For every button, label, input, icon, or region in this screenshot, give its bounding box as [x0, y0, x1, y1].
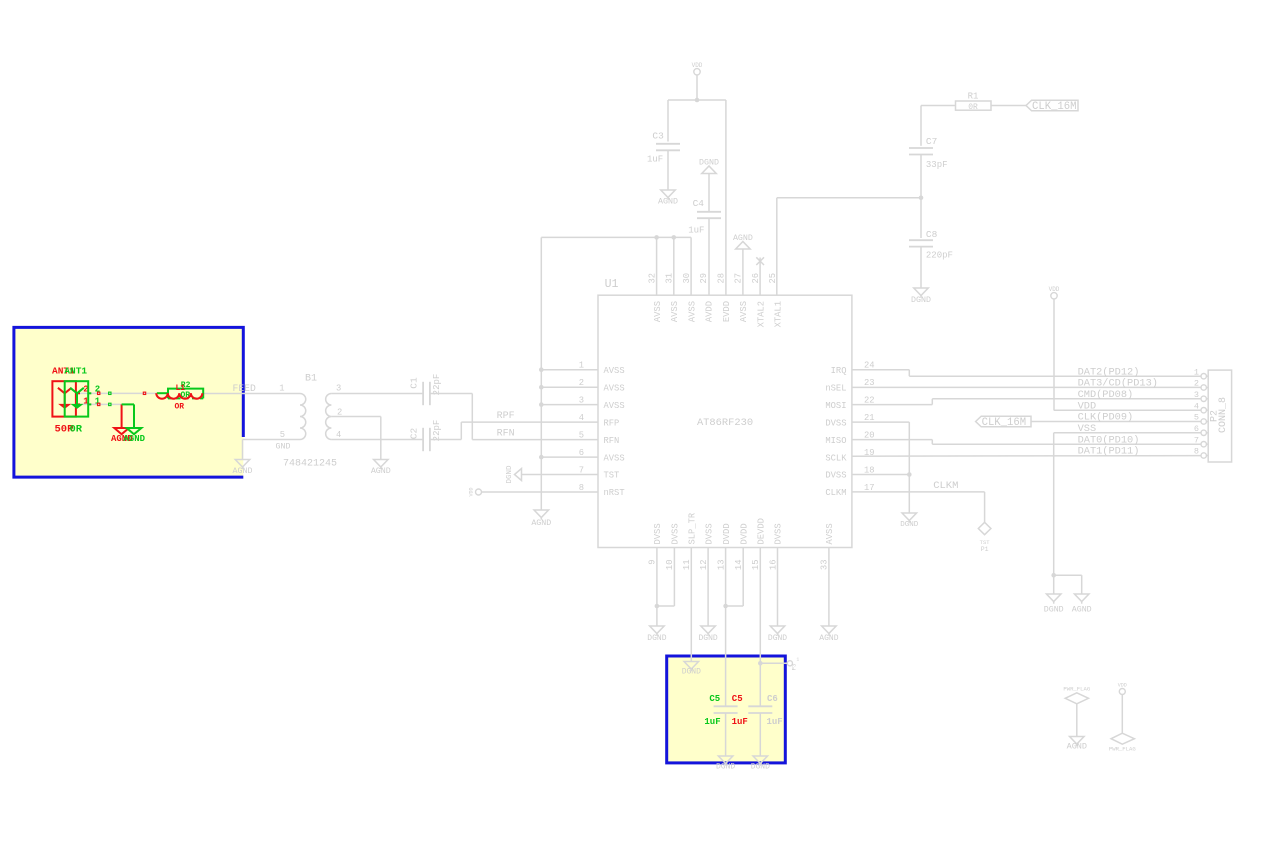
svg-text:1: 1: [279, 384, 284, 394]
wire XTAL1 riser: [777, 198, 921, 295]
op-amp U1 AT86RF230 body: [598, 278, 852, 548]
svg-text:C8: C8: [926, 229, 938, 240]
svg-text:1uF: 1uF: [704, 717, 720, 727]
connector pin P3: [787, 657, 799, 671]
svg-text:DGND: DGND: [911, 296, 931, 305]
wire C1 to RFN: [430, 394, 598, 440]
svg-text:AT86RF230: AT86RF230: [697, 417, 753, 429]
svg-text:C1: C1: [409, 377, 420, 389]
svg-text:nSEL: nSEL: [825, 383, 846, 393]
capacitor C4: [688, 198, 721, 236]
svg-text:2: 2: [1194, 379, 1199, 389]
junction pin 18 DGND node: [907, 472, 912, 477]
ground DGND under C8: [911, 288, 931, 305]
svg-text:PWR_FLAG: PWR_FLAG: [1109, 746, 1136, 753]
svg-text:SCLK: SCLK: [825, 453, 847, 463]
wire pin 30 stub: [690, 237, 692, 295]
transformer B1 748421245: [276, 374, 343, 470]
wire antenna pin 1 (gray): [78, 403, 122, 405]
power symbol VDD (top): [692, 62, 703, 100]
svg-text:XTAL1: XTAL1: [774, 301, 784, 327]
svg-text:5: 5: [280, 430, 285, 440]
ground DGND under pin 12: [698, 626, 717, 643]
ground AGND old (red): [111, 404, 133, 444]
svg-text:CMD(PD08): CMD(PD08): [1078, 389, 1134, 401]
svg-text:DGND: DGND: [647, 634, 666, 643]
wire C3 to AGND: [667, 150, 669, 190]
svg-text:DEVDD: DEVDD: [757, 518, 767, 544]
U1 right pin names and numbers 24-17: [825, 361, 874, 499]
wire DVSS pin 21 to DGND: [852, 422, 909, 513]
svg-text:CLK(PD09): CLK(PD09): [1078, 412, 1134, 424]
svg-text:AVSS: AVSS: [604, 401, 625, 411]
ground DGND under pin 16: [768, 626, 787, 643]
ground AGND of VSS net: [1054, 575, 1092, 614]
svg-text:RFN: RFN: [604, 436, 620, 446]
svg-text:PWR_FLAG: PWR_FLAG: [1063, 686, 1090, 693]
svg-text:B1: B1: [305, 374, 317, 385]
power symbol VDD (right): [1049, 286, 1060, 410]
wire pin 32 stub: [656, 237, 658, 295]
connector P2 CONN_8: [1194, 367, 1232, 462]
svg-text:C2: C2: [409, 428, 420, 440]
svg-text:DVSS: DVSS: [774, 523, 784, 544]
svg-text:RFN: RFN: [497, 429, 515, 440]
wire B1 pin 3 to C1: [331, 393, 423, 395]
U1 left pin names and numbers 1-8: [579, 361, 625, 499]
global label CLK_16M (right): [976, 416, 1201, 429]
wire end markers (red): [98, 392, 146, 406]
wire pin 15 branch to P3 pin: [760, 662, 787, 664]
svg-text:AVDD: AVDD: [705, 301, 715, 322]
wire B1 pin 5 to AGND: [243, 440, 301, 460]
wire pin 13 through C5: [725, 548, 727, 757]
svg-text:1: 1: [797, 657, 800, 663]
svg-text:TST: TST: [980, 539, 991, 546]
svg-text:XTAL2: XTAL2: [756, 301, 766, 327]
svg-text:1uF: 1uF: [647, 155, 663, 165]
svg-text:SLP_TR: SLP_TR: [688, 512, 698, 544]
svg-text:AVSS: AVSS: [604, 453, 625, 463]
svg-text:L1: L1: [176, 384, 186, 393]
junction pins 9-10: [655, 604, 660, 609]
ground AGND under C3: [658, 190, 678, 207]
no-connect X on pin 26: [756, 257, 764, 295]
svg-text:22pF: 22pF: [432, 420, 442, 442]
junction pin 15 branch: [758, 661, 763, 666]
svg-text:OR: OR: [175, 402, 185, 411]
wire MISO pin 20 to DAT0: [852, 440, 1201, 445]
svg-text:CLK_16M: CLK_16M: [982, 417, 1027, 429]
svg-text:DGND: DGND: [751, 763, 770, 772]
svg-text:4: 4: [1194, 401, 1199, 411]
svg-text:DAT2(PD12): DAT2(PD12): [1078, 366, 1140, 378]
wire VDD to connector pin 4: [1054, 409, 1201, 411]
svg-text:DGND: DGND: [716, 763, 735, 772]
svg-text:3: 3: [336, 384, 341, 394]
power pin VDD at nRST pin 8: [469, 487, 599, 496]
ground AGND under AVSS bus: [531, 510, 551, 528]
svg-text:AVSS: AVSS: [825, 523, 835, 544]
svg-text:EVDD: EVDD: [722, 301, 732, 322]
ground DGND at TST pin 7: [506, 465, 598, 484]
svg-text:22pF: 22pF: [432, 374, 442, 396]
svg-text:8: 8: [1194, 447, 1199, 457]
ground AGND under pin 33: [819, 626, 838, 643]
junction VSS ground split: [1051, 573, 1056, 578]
svg-text:DVSS: DVSS: [825, 471, 846, 481]
svg-text:AGND: AGND: [658, 198, 678, 207]
svg-text:220pF: 220pF: [926, 251, 953, 261]
junction C7/C8 node: [919, 196, 924, 201]
svg-text:AGND: AGND: [123, 434, 145, 444]
svg-text:DVSS: DVSS: [825, 418, 846, 428]
svg-text:7: 7: [1194, 435, 1199, 445]
ground DGND under pin 21: [900, 513, 919, 529]
svg-text:1: 1: [1194, 367, 1199, 377]
svg-text:CLKM: CLKM: [825, 488, 846, 498]
svg-text:C7: C7: [926, 136, 937, 147]
svg-text:1uF: 1uF: [732, 717, 748, 727]
svg-text:P3: P3: [791, 664, 798, 671]
svg-text:C6: C6: [767, 694, 778, 704]
svg-text:29: 29: [699, 273, 709, 284]
svg-text:RPF: RPF: [497, 411, 515, 422]
svg-text:DGND: DGND: [682, 668, 701, 677]
ground DGND under pin 9: [647, 626, 666, 643]
svg-text:28: 28: [716, 273, 726, 284]
wire pin 16 to DGND: [777, 548, 779, 627]
svg-text:C4: C4: [693, 198, 705, 209]
svg-text:AVSS: AVSS: [604, 383, 625, 393]
svg-text:DVSS: DVSS: [671, 523, 681, 544]
U1 bottom pin names and numbers 9-16 and 33: [648, 512, 835, 570]
svg-text:RFP: RFP: [604, 418, 620, 428]
net labels DAT2 DAT3 CMD VDD CLK VSS DAT0 DAT1: [1078, 366, 1158, 457]
wire pin 33 AVSS to AGND: [828, 548, 830, 627]
svg-text:0R: 0R: [70, 424, 83, 436]
wire to C3: [667, 100, 669, 142]
ground AGND above pin 27: [733, 234, 753, 295]
wire VSS to connector pin 6: [1054, 433, 1201, 575]
changed-area highlight box 2 (decoupling caps C5/C6): [665, 655, 787, 765]
svg-text:AGND: AGND: [371, 467, 391, 476]
svg-text:DGND: DGND: [1044, 606, 1064, 615]
svg-text:4: 4: [336, 430, 341, 440]
svg-text:AVSS: AVSS: [687, 301, 697, 322]
svg-text:GND: GND: [276, 443, 291, 452]
svg-text:AGND: AGND: [1072, 606, 1092, 615]
wire B1 pin 4 to C2: [331, 439, 423, 441]
svg-text:DAT0(PD10): DAT0(PD10): [1078, 434, 1140, 446]
ground DGND under pin 11: [682, 662, 701, 677]
svg-text:AGND: AGND: [819, 634, 838, 643]
svg-text:1uF: 1uF: [767, 717, 783, 727]
resistor R2 new (green): [157, 381, 203, 400]
svg-text:IRQ: IRQ: [831, 366, 847, 376]
wire end markers (green): [109, 392, 111, 406]
wire SCLK pin 19 to DAT1: [852, 455, 1201, 458]
capacitor C3: [647, 131, 680, 165]
junction AVSS pin 2: [539, 385, 544, 390]
junction AVSS pin 1: [539, 367, 544, 372]
junction AVSS pin 3: [539, 402, 544, 407]
wire pin 10 joins pin 9: [657, 548, 675, 607]
wire CLKM pin 17 to P1 flag: [852, 480, 985, 523]
U1 top pin names and numbers 32-25: [647, 273, 783, 327]
svg-text:DVDD: DVDD: [722, 523, 732, 544]
global label CLK_16M (top): [1026, 100, 1078, 113]
antenna ANT1 new (green): [64, 366, 100, 436]
svg-text:6: 6: [1194, 424, 1199, 434]
flag PWR_FLAG on VDD: [1109, 683, 1136, 753]
inductor L1 old (red): [156, 384, 202, 411]
svg-text:DGND: DGND: [768, 634, 787, 643]
wire C7 to R1: [921, 105, 956, 107]
svg-text:DGND: DGND: [900, 521, 919, 529]
wire pin 31 stub: [673, 237, 675, 295]
junction pins 13-14: [723, 604, 728, 609]
wire FEED to B1 pin 1: [203, 383, 300, 394]
ground DGND under C5: [716, 756, 735, 772]
wire pin 15 DEVDD through C6: [759, 548, 761, 757]
changed-area highlight box 1 (antenna / matching network): [12, 326, 243, 479]
wire nSEL pin 23 to DAT3: [852, 386, 1201, 388]
wire antenna pin 2 to FEED (gray): [78, 392, 156, 394]
ground DGND above C4: [699, 159, 719, 212]
ground AGND under B1 pin 5: [233, 460, 253, 477]
wire MOSI pin 22 to CMD: [852, 399, 1201, 405]
svg-text:C5: C5: [709, 694, 720, 704]
svg-text:P1: P1: [981, 546, 989, 553]
wire IRQ pin 24 to DAT2: [852, 370, 1201, 377]
flag P1 TST diamond: [978, 522, 991, 553]
svg-text:ANT1: ANT1: [64, 366, 87, 377]
svg-text:VDD: VDD: [1049, 286, 1060, 293]
capacitor C2: [409, 420, 442, 452]
svg-text:5: 5: [1194, 413, 1199, 423]
capacitor C5 reference old (red): [732, 694, 748, 727]
svg-text:MOSI: MOSI: [825, 401, 846, 411]
svg-text:748421245: 748421245: [283, 459, 337, 470]
svg-text:25: 25: [768, 273, 778, 284]
svg-text:R1: R1: [968, 92, 979, 102]
ground AGND under B1 pin 2: [371, 460, 391, 477]
svg-text:AGND: AGND: [531, 519, 551, 528]
wire AVSS left bus: [541, 237, 598, 510]
svg-text:VDD: VDD: [1078, 400, 1097, 412]
junction pin 31 top: [672, 235, 677, 240]
svg-text:DGND: DGND: [506, 465, 514, 484]
capacitor C7: [909, 106, 948, 198]
junction pin 32 top: [654, 235, 659, 240]
junction VDD rail: [695, 98, 700, 103]
svg-text:1uF: 1uF: [688, 226, 704, 236]
resistor R1: [956, 92, 992, 112]
wire R1 to label: [991, 105, 1026, 107]
svg-text:AVSS: AVSS: [604, 366, 625, 376]
svg-text:C3: C3: [652, 131, 664, 142]
antenna ANT1 old (red): [52, 366, 89, 436]
svg-text:AGND: AGND: [1067, 742, 1087, 752]
svg-text:U1: U1: [605, 278, 619, 291]
capacitor C1: [409, 374, 442, 406]
svg-text:DGND: DGND: [698, 634, 717, 643]
wire DVSS pin 18: [852, 474, 909, 476]
wire VDD top rail: [668, 99, 726, 101]
svg-text:AVSS: AVSS: [653, 301, 663, 322]
svg-text:VDD: VDD: [1118, 683, 1127, 689]
flag PWR_FLAG on AGND: [1063, 686, 1090, 752]
wire C2 to RPF: [430, 411, 598, 440]
svg-text:FEED: FEED: [233, 383, 256, 394]
wire pin 9 to DGND: [656, 548, 658, 627]
svg-text:VDD: VDD: [469, 487, 475, 496]
svg-text:DVDD: DVDD: [739, 523, 749, 544]
wire pin 11 SLP_TR to DGND in box: [690, 548, 692, 662]
wire B1 pin 2 to AGND: [331, 417, 380, 460]
svg-text:C5: C5: [732, 694, 743, 704]
svg-text:CLK_16M: CLK_16M: [1032, 101, 1077, 113]
svg-text:DVSS: DVSS: [704, 523, 714, 544]
wire pin 14 joins pin 13: [726, 548, 744, 607]
svg-text:AGND: AGND: [233, 467, 253, 476]
svg-text:3: 3: [1194, 390, 1199, 400]
svg-text:nRST: nRST: [604, 488, 625, 498]
svg-text:AVSS: AVSS: [670, 301, 680, 322]
svg-text:MISO: MISO: [825, 436, 846, 446]
capacitor C8: [909, 198, 953, 288]
svg-text:DVSS: DVSS: [653, 523, 663, 544]
svg-text:23: 23: [864, 378, 875, 388]
svg-text:CONN_8: CONN_8: [1218, 397, 1229, 433]
svg-text:33pF: 33pF: [926, 160, 948, 170]
ground DGND under C6: [751, 756, 770, 772]
ground AGND new (green): [122, 404, 146, 444]
junction AVSS pin 6: [539, 455, 544, 460]
svg-text:DAT1(PD11): DAT1(PD11): [1078, 446, 1140, 458]
wire pin 28 stub: [725, 100, 727, 295]
capacitor C5 reference new (green): [704, 694, 720, 727]
wire pin 12 to DGND: [707, 548, 709, 627]
capacitor C5 plates: [714, 706, 738, 713]
svg-text:VSS: VSS: [1078, 423, 1097, 435]
wire C4 to pin 29: [708, 218, 710, 295]
svg-text:0R: 0R: [968, 103, 978, 112]
svg-text:DAT3/CD(PD13): DAT3/CD(PD13): [1078, 378, 1158, 390]
svg-text:CLKM: CLKM: [933, 480, 958, 492]
ground DGND of VSS net: [1044, 575, 1064, 614]
svg-text:TST: TST: [604, 471, 620, 481]
wire AVSS top rail: [541, 236, 691, 238]
svg-text:AVSS: AVSS: [739, 301, 749, 322]
capacitor C6: [748, 694, 782, 727]
